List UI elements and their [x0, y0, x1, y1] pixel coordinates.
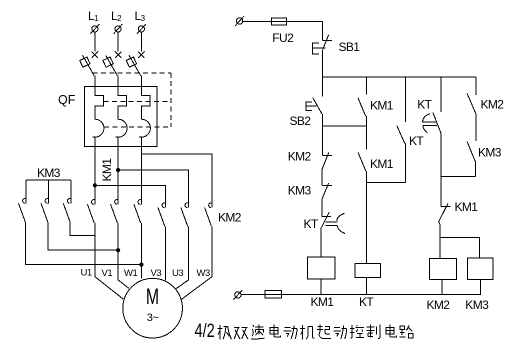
wire KM3 NC to KT contact: [321, 200, 323, 217]
terminal label U3: [172, 268, 183, 279]
coil KM3 label: [465, 298, 489, 312]
svg-text:KM3: KM3: [37, 166, 61, 180]
terminal L3: [137, 24, 146, 34]
svg-text:U1: U1: [81, 268, 92, 279]
motor lead U3: [176, 226, 188, 288]
svg-text:QF: QF: [58, 93, 76, 107]
svg-text:M: M: [146, 285, 159, 309]
switch QF pole 2 blade: [103, 55, 117, 75]
title char dong (move): [284, 325, 297, 339]
wire V phase QF to KM1 contact: [117, 146, 119, 204]
relay KT delayed contact right: [423, 113, 442, 134]
breaker QF pole 2 element: [116, 86, 128, 146]
title char su (speed): [251, 325, 265, 340]
KM1 holding label: [370, 98, 394, 112]
svg-text:4/2: 4/2: [195, 319, 215, 342]
contactor KM1 contact 2: [111, 200, 119, 223]
wire merge to KM1 NC: [440, 177, 442, 207]
KM1 second label: [370, 157, 394, 171]
wire pole 2 to QF box: [117, 76, 119, 87]
svg-text:KM3: KM3: [478, 146, 502, 160]
wire KM2 coil to rail: [441, 280, 443, 295]
wire branch U to KM2 pole: [95, 185, 166, 207]
wire node to KM2 interlock: [321, 126, 323, 155]
wire KM1 holding to node line: [366, 116, 368, 149]
wire branch to KM3 coil: [440, 238, 480, 258]
button SB2 NO contact: [306, 98, 322, 114]
svg-text:3~: 3~: [147, 312, 159, 324]
svg-text:KM2: KM2: [427, 298, 451, 312]
contactor KM1 NO second contact: [358, 152, 366, 171]
merge wire: [441, 176, 475, 178]
terminal label W1: [124, 268, 137, 279]
wire bus to KM1 holding contact: [366, 77, 368, 95]
SB1 label: [339, 40, 361, 54]
svg-text:KT: KT: [304, 217, 319, 231]
switch QF pole 1 contact cross: [92, 52, 98, 58]
wire bus corner to KM2 NO: [475, 77, 477, 95]
svg-text:KM2: KM2: [218, 211, 242, 225]
coil KT: [355, 263, 381, 277]
node L2 label: [111, 9, 122, 23]
SB2 label: [290, 114, 312, 128]
control terminal top: [235, 16, 244, 26]
motor lead V3: [165, 226, 167, 280]
coil KM2 label: [427, 298, 451, 312]
contactor KM3 contact 1: [19, 199, 27, 222]
terminal L1: [90, 24, 99, 34]
svg-text:V3: V3: [151, 268, 162, 279]
svg-text:SB1: SB1: [339, 40, 361, 54]
coil KM3: [468, 258, 494, 280]
contactor KM2 NO holding: [467, 94, 476, 115]
coil KM1 label: [311, 295, 335, 309]
contactor KM3 NO holding: [467, 142, 475, 162]
wire KT NO to junction: [404, 144, 406, 183]
wire junction to KT column: [367, 181, 406, 183]
wire bus to SB2: [321, 77, 323, 97]
wire pole 3 to QF box: [140, 76, 142, 87]
KM3 NO label: [478, 146, 502, 160]
contactor KM3 contact 2: [41, 199, 49, 222]
wire node to KM1 holding branch: [322, 125, 366, 127]
motor M circle: [123, 278, 183, 338]
KM3 star bus: [26, 180, 71, 203]
KM1 group label rotated: [100, 158, 114, 182]
coil KM1: [308, 257, 335, 279]
KT delayed right label: [417, 98, 432, 112]
QF label: [58, 93, 76, 107]
fuse bottom: [265, 290, 281, 298]
contactor KM3 NC interlock: [322, 183, 332, 200]
KM2 NC label: [288, 149, 312, 163]
wire KM1 NC to KM2 coil: [439, 222, 440, 259]
svg-text:KM1: KM1: [370, 98, 394, 112]
svg-text:FU2: FU2: [272, 31, 294, 45]
title char ji (pole): [217, 325, 231, 339]
wire W phase QF to KM1 contact: [140, 146, 142, 204]
contactor KM1 NC interlock: [439, 203, 451, 222]
wire SB2 to node: [321, 114, 323, 126]
wire terminal to FU2: [243, 20, 272, 22]
wire KM1 coil to rail: [320, 279, 322, 294]
svg-text:KT: KT: [409, 134, 424, 148]
wire branch W to KM2 pole: [141, 154, 212, 208]
fuse FU2: [272, 18, 287, 25]
svg-text:KT: KT: [359, 295, 374, 309]
svg-text:W1: W1: [124, 268, 137, 279]
wire FU2 to corner: [287, 21, 323, 40]
wire KT delayed to merge: [440, 134, 442, 177]
coil KT label: [359, 295, 374, 309]
wire bus to KT delayed NO: [440, 77, 442, 112]
contactor KM2 contact 2: [181, 203, 189, 226]
control bottom rail: [241, 293, 481, 295]
wire KT coil to rail: [366, 278, 368, 295]
title char zhi (system): [367, 325, 380, 339]
motor M letter: [146, 285, 159, 309]
coil KM2: [429, 259, 456, 280]
contactor KM2 NC interlock: [322, 152, 332, 170]
wire KM3 contact 2 to V1: [48, 222, 118, 250]
svg-text:KM1: KM1: [370, 157, 394, 171]
switch QF pole 3 contact cross: [138, 52, 144, 58]
KM2 group label: [218, 211, 242, 225]
contactor KM1 contact 1: [87, 200, 95, 223]
wire KM1 second to KT coil junction: [366, 171, 368, 263]
svg-text:KM2: KM2: [481, 98, 505, 112]
breaker QF box: [84, 86, 157, 146]
node L3 label: [135, 9, 146, 23]
wire KM2 NO to KM3 NO: [475, 114, 477, 141]
node dot W1 star: [139, 263, 143, 267]
contactor KM2 contact 1: [158, 203, 166, 226]
title char kong (control): [350, 325, 364, 338]
wire SB1 to bus: [321, 49, 323, 77]
title char lu (road): [400, 325, 414, 338]
motor lead V1: [118, 223, 129, 288]
title char ji2 (machine): [300, 325, 314, 339]
svg-text:KT: KT: [417, 98, 432, 112]
QF trip linkage dashed: [93, 73, 171, 127]
contactor KM1 contact 3: [134, 200, 142, 223]
svg-text:KM2: KM2: [288, 149, 312, 163]
title text 4/2: [195, 319, 215, 342]
KM1 NC label: [455, 200, 479, 214]
breaker QF pole 3 element: [139, 86, 151, 146]
wire L3 drop: [140, 32, 142, 52]
svg-text:KM3: KM3: [288, 183, 312, 197]
svg-text:V1: V1: [102, 268, 113, 279]
contactor KM1 NO holding contact: [358, 98, 366, 117]
relay KT NO contact: [397, 125, 405, 143]
motor lead W1: [140, 223, 142, 279]
KT NO label: [409, 134, 424, 148]
wire KT to KM1 coil: [320, 228, 322, 258]
title char dong2 (move): [333, 325, 346, 339]
svg-text:KM3: KM3: [465, 298, 489, 312]
KM3 NC label: [288, 183, 312, 197]
wire bus to KT NO contact: [404, 77, 406, 122]
svg-text:SB2: SB2: [290, 114, 312, 128]
motor lead U1: [95, 223, 123, 299]
control terminal bottom: [233, 290, 242, 300]
switch QF pole 2 contact cross: [115, 52, 121, 58]
relay KT delayed NC contact: [321, 212, 345, 234]
terminal label U1: [81, 268, 92, 279]
node dot V1 star: [116, 248, 120, 252]
contactor KM2 contact 3: [205, 203, 213, 226]
terminal label V3: [151, 268, 162, 279]
wire L2 drop: [117, 32, 119, 52]
KT delayed label: [304, 217, 319, 231]
wire pole 1 to QF box: [94, 76, 96, 87]
title char dian (electric): [270, 325, 281, 337]
svg-text:KM1: KM1: [455, 200, 479, 214]
terminal label W3: [197, 268, 210, 279]
wire KM3 contact 3 to U1: [70, 222, 95, 236]
contactor KM3 contact 3: [63, 199, 71, 222]
wire KM3 contact 1 to W1: [25, 222, 141, 265]
svg-text:U3: U3: [172, 268, 183, 279]
KM2 NO label: [481, 98, 505, 112]
title char dian2 (electric): [386, 325, 397, 337]
KM3 label: [37, 166, 61, 180]
wire U phase QF to KM1 contact: [94, 146, 96, 204]
wire KM2 NC to KM3 NC: [321, 170, 323, 186]
svg-text:KM1: KM1: [311, 295, 335, 309]
switch QF pole 3 blade: [126, 55, 140, 75]
wire KM3 NO to merge: [474, 162, 476, 177]
title char qi (start): [317, 325, 331, 339]
wire L1 drop: [94, 32, 96, 52]
motor lead W3: [182, 226, 212, 299]
wire branch V to KM2 pole: [118, 170, 188, 208]
button SB1 NC contact: [313, 35, 333, 54]
terminal label V1: [102, 268, 113, 279]
breaker QF pole 1 element: [92, 86, 104, 146]
node dot V branch: [116, 168, 120, 172]
wire KM3 coil to rail: [479, 280, 481, 295]
terminal L2: [114, 24, 123, 34]
motor 3~ label: [147, 312, 159, 324]
node L1 label: [88, 9, 99, 23]
control bus: [322, 76, 475, 78]
node dot U branch: [93, 183, 97, 187]
svg-text:W3: W3: [197, 268, 210, 279]
svg-text:KM1: KM1: [100, 158, 114, 182]
title char shuang (double): [234, 327, 248, 339]
switch QF pole 1 blade: [80, 55, 94, 75]
FU2 label: [272, 31, 294, 45]
